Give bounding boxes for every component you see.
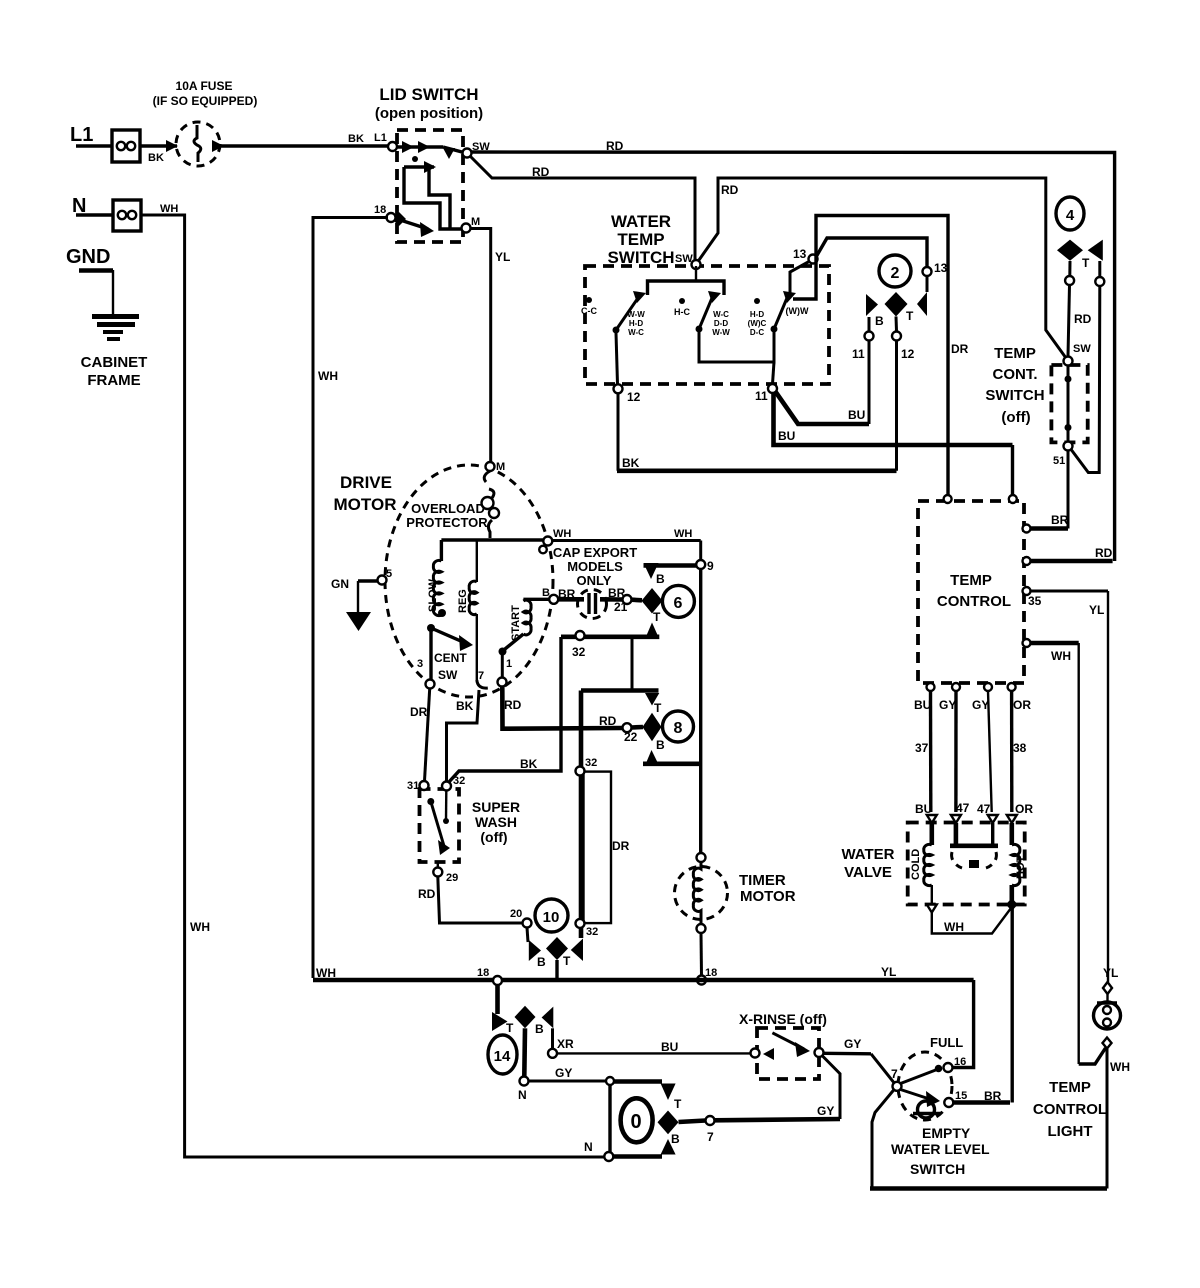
svg-text:W-C: W-C [713, 310, 729, 319]
node L1 at lid switch [388, 142, 397, 151]
svg-text:B: B [875, 314, 884, 328]
X-RINSE right node [815, 1048, 824, 1057]
svg-text:M: M [496, 461, 505, 473]
svg-text:(off): (off) [1001, 409, 1030, 426]
wire BK fuse to lid switch [220, 132, 388, 146]
svg-text:2: 2 [891, 265, 900, 282]
wire YL temp control to lamp [1103, 591, 1118, 982]
svg-text:11: 11 [755, 389, 768, 403]
node 3 of motor [417, 658, 435, 689]
svg-text:T: T [654, 701, 662, 715]
wire BR valve common to water level switch [1011, 907, 1014, 1103]
connector 10 [527, 899, 583, 980]
wire WH motor to node 9 [552, 528, 700, 560]
svg-text:BU: BU [848, 408, 865, 422]
svg-text:N: N [584, 1140, 593, 1154]
svg-text:(off): (off) [480, 829, 507, 845]
wire RD top from lid switch SW to right edge [471, 139, 1115, 561]
svg-text:RD: RD [504, 698, 522, 712]
connector plug P1 on L1 [112, 130, 140, 162]
switch arm 2 (W-C/D-D/W-W) [696, 291, 731, 337]
pin 35 YL of temp control [1023, 587, 1109, 617]
temp cont switch arm [1065, 365, 1072, 442]
valve bottom pin left [927, 905, 937, 913]
wire GY temp control to valve 47 [956, 691, 970, 815]
svg-text:XR: XR [557, 1037, 574, 1051]
wire GY X-RINSE to water level [824, 1037, 896, 1084]
node 18 timer on bus [697, 967, 717, 985]
svg-text:N: N [518, 1088, 527, 1102]
centrifugal switch [427, 624, 473, 682]
svg-text:18: 18 [477, 967, 489, 979]
svg-text:(open position): (open position) [375, 105, 483, 122]
valve pin BU [927, 815, 937, 823]
svg-text:T: T [563, 954, 571, 968]
svg-text:10A FUSE: 10A FUSE [176, 79, 233, 93]
svg-text:MOTOR: MOTOR [334, 495, 397, 514]
wire L1 lead [76, 144, 112, 147]
hot solenoid coil [1012, 823, 1027, 904]
svg-text:WATER: WATER [611, 212, 671, 231]
svg-text:BR: BR [984, 1089, 1002, 1103]
connector 0 [610, 1082, 682, 1157]
svg-text:BK: BK [622, 456, 640, 470]
wire RD connector 4 to temp cont switch [1065, 261, 1092, 356]
svg-text:GY: GY [817, 1104, 834, 1118]
wire BK motor contact to super wash [447, 690, 480, 781]
connector 6 [642, 563, 697, 639]
svg-text:WH: WH [674, 528, 692, 540]
node 13 of connector 2 [923, 261, 948, 292]
svg-text:WH: WH [318, 369, 338, 383]
svg-text:35: 35 [1028, 594, 1042, 608]
wire BR cap to connector 6 [558, 586, 628, 614]
valve pin 47b [988, 815, 998, 823]
wire BR node 51 to temp control [1067, 451, 1070, 529]
contact H-C [674, 298, 690, 317]
wire DR from (W)W to temp control [793, 216, 969, 496]
svg-text:47: 47 [956, 801, 970, 815]
node N of connector 14 [518, 1077, 529, 1103]
svg-text:C-C: C-C [581, 306, 597, 316]
wire OR temp control to valve [1012, 691, 1034, 816]
wire water level loop to lamp [870, 1048, 1107, 1189]
svg-text:GY: GY [844, 1037, 861, 1051]
svg-text:LIGHT: LIGHT [1048, 1123, 1093, 1140]
svg-text:OVERLOAD: OVERLOAD [411, 501, 485, 516]
water valve [841, 823, 1024, 905]
node 12 of water temp switch [614, 384, 641, 404]
wire node 13 riser to connector 2 [816, 238, 927, 266]
svg-text:B: B [537, 955, 546, 969]
wire WH valve bottom loop [932, 907, 1012, 934]
main bottom bus WH/YL [313, 965, 974, 1068]
svg-text:7: 7 [707, 1130, 714, 1144]
X-RINSE left node [751, 1048, 775, 1060]
svg-text:WH: WH [160, 203, 178, 215]
svg-text:9: 9 [707, 559, 714, 573]
wire BK from plug to fuse [140, 146, 177, 164]
svg-text:HOT: HOT [1015, 856, 1027, 880]
node 31 of super wash [407, 780, 429, 792]
svg-text:START: START [510, 605, 522, 641]
node 29 of super wash [433, 862, 458, 884]
connector 4 [1056, 197, 1103, 270]
switch arm 1 (W-W/H-D/W-C) [613, 291, 647, 337]
wire B of connector 8 to timer line [643, 761, 701, 766]
svg-text:TIMER: TIMER [739, 872, 786, 889]
node M of lid switch [462, 216, 481, 233]
svg-text:6: 6 [674, 595, 683, 612]
overload protector [406, 471, 499, 538]
svg-text:YL: YL [1089, 603, 1104, 617]
svg-text:WH: WH [1051, 649, 1071, 663]
svg-text:DR: DR [612, 839, 630, 853]
wire link to node 11 [773, 362, 775, 384]
svg-text:D-D: D-D [714, 319, 728, 328]
wire BU XR to X-RINSE [557, 1040, 751, 1054]
svg-text:BU: BU [914, 698, 931, 712]
slow winding [427, 540, 446, 617]
svg-text:L1: L1 [374, 132, 387, 144]
wire DR superwash to cent sw [410, 689, 430, 782]
svg-text:WATER LEVEL: WATER LEVEL [891, 1141, 990, 1157]
svg-text:H-D: H-D [750, 310, 764, 319]
svg-text:BR: BR [558, 587, 576, 601]
connector 14 [488, 985, 553, 1077]
svg-text:W-W: W-W [712, 328, 730, 337]
node SW of water temp switch [675, 253, 701, 269]
connector plug P2 on N [113, 200, 141, 231]
temp control bottom pins [914, 683, 1031, 712]
svg-text:REG: REG [457, 589, 469, 613]
svg-text:WH: WH [190, 920, 210, 934]
svg-text:YL: YL [881, 965, 896, 979]
svg-text:(W)W: (W)W [786, 306, 809, 316]
water level pivot node 7 [891, 1067, 902, 1091]
node 9 [696, 559, 714, 573]
svg-text:(IF SO EQUIPPED): (IF SO EQUIPPED) [153, 94, 258, 108]
wire GY N to connector 0 [529, 1066, 615, 1085]
svg-text:SUPER: SUPER [472, 799, 520, 815]
svg-text:WASH: WASH [475, 814, 517, 830]
svg-text:LID SWITCH: LID SWITCH [379, 85, 478, 104]
svg-text:VALVE: VALVE [844, 864, 892, 881]
svg-text:W-C: W-C [628, 328, 644, 337]
wire RD motor node1 to connector 8 [502, 687, 622, 729]
svg-text:RD: RD [1074, 312, 1092, 326]
svg-text:BK: BK [148, 152, 164, 164]
wire selector common bar [648, 266, 725, 295]
wire BK line A with node 32 [561, 631, 659, 691]
svg-text:14: 14 [494, 1048, 511, 1065]
node 11 of water temp switch [755, 384, 777, 403]
node N bottom left of connector 0 [584, 1140, 613, 1161]
pin WH of temp control [1023, 639, 1079, 663]
svg-text:12: 12 [901, 347, 915, 361]
svg-text:RD: RD [418, 887, 436, 901]
svg-text:T: T [506, 1021, 514, 1035]
motor internal bus [441, 538, 548, 541]
svg-text:H-D: H-D [629, 319, 643, 328]
node 5 GN ground of motor [331, 568, 392, 631]
svg-text:FRAME: FRAME [87, 372, 140, 389]
svg-text:CONTROL: CONTROL [937, 593, 1011, 610]
svg-text:SLOW: SLOW [427, 578, 439, 612]
svg-text:X-RINSE (off): X-RINSE (off) [739, 1011, 827, 1027]
svg-text:BR: BR [1051, 513, 1069, 527]
empty contact symbol [913, 1101, 941, 1118]
svg-text:RD: RD [606, 139, 624, 153]
node 7 [706, 1116, 715, 1144]
node WH at motor [539, 528, 571, 553]
svg-text:(W)C: (W)C [748, 319, 767, 328]
svg-text:B: B [656, 572, 665, 586]
svg-text:PROTECTOR: PROTECTOR [406, 515, 488, 530]
water level switch [891, 1035, 990, 1177]
svg-text:B: B [535, 1022, 544, 1036]
svg-text:3: 3 [417, 658, 423, 670]
node SW of temp cont switch [1064, 343, 1092, 366]
pin BR of temp control [1023, 513, 1069, 533]
svg-text:COLD: COLD [910, 849, 922, 880]
svg-text:T: T [674, 1097, 682, 1111]
X-RINSE arm [772, 1033, 810, 1057]
svg-text:7: 7 [891, 1067, 898, 1081]
wire BK super wash 32 riser [448, 637, 561, 783]
svg-text:SWITCH: SWITCH [985, 387, 1044, 404]
svg-text:12: 12 [627, 390, 641, 404]
wire GY temp control to valve 47b [977, 691, 992, 816]
svg-text:20: 20 [510, 908, 522, 920]
svg-text:SWITCH: SWITCH [910, 1161, 965, 1177]
svg-text:YL: YL [1103, 966, 1118, 980]
lid switch S1 (open position) [375, 85, 483, 242]
svg-text:TEMP: TEMP [1049, 1079, 1091, 1096]
capacitor (cap export models only) [553, 545, 637, 619]
svg-text:B: B [671, 1132, 680, 1146]
node 11 of connector 2 [852, 317, 874, 424]
wire arm3 to node 13 [790, 261, 810, 296]
node 16 FULL [944, 1056, 967, 1072]
node 18 of lid switch [374, 204, 396, 222]
super wash switch [420, 789, 521, 862]
wire GY node 7 to X-RINSE [715, 1056, 841, 1121]
node 15 EMPTY [944, 1090, 967, 1107]
svg-text:1: 1 [506, 658, 512, 670]
svg-text:CONTROL: CONTROL [1033, 1101, 1107, 1118]
svg-text:RD: RD [1095, 546, 1113, 560]
svg-text:RD: RD [721, 183, 739, 197]
svg-text:WH: WH [316, 966, 336, 980]
svg-text:10: 10 [543, 909, 560, 926]
svg-text:DRIVE: DRIVE [340, 473, 392, 492]
wire 7 from connector 0 [679, 1121, 706, 1123]
svg-text:GY: GY [555, 1066, 572, 1080]
water level arm to EMPTY [901, 1090, 941, 1108]
svg-text:WH: WH [553, 528, 571, 540]
svg-text:18: 18 [374, 204, 386, 216]
svg-text:MODELS: MODELS [567, 559, 623, 574]
svg-text:BU: BU [778, 429, 795, 443]
reg winding [457, 540, 477, 680]
node B of motor start [542, 587, 558, 604]
svg-text:32: 32 [586, 926, 598, 938]
svg-text:32: 32 [585, 757, 597, 769]
svg-text:M: M [471, 216, 480, 228]
svg-text:MOTOR: MOTOR [740, 888, 796, 905]
svg-text:18: 18 [705, 967, 717, 979]
wire BU node11 to connector2 [775, 391, 869, 424]
wire YL lid switch M to motor M [471, 229, 511, 463]
wire link arm2-arm3 [699, 332, 774, 362]
svg-text:GN: GN [331, 577, 349, 591]
svg-text:OR: OR [1013, 698, 1031, 712]
svg-text:DR: DR [951, 342, 969, 356]
temp cont switch [985, 345, 1087, 442]
node 20 [510, 908, 532, 928]
svg-text:RD: RD [532, 165, 550, 179]
svg-text:11: 11 [852, 347, 865, 361]
svg-text:EMPTY: EMPTY [922, 1125, 971, 1141]
node 32 upper on riser [576, 757, 598, 776]
svg-text:WH: WH [1110, 1060, 1130, 1074]
wire BU node11 to temp control [774, 393, 1013, 495]
water level arm to FULL [901, 1065, 943, 1084]
svg-text:CAP EXPORT: CAP EXPORT [553, 545, 637, 560]
switch arm 3 ((W)W) [771, 291, 809, 333]
svg-text:B: B [656, 738, 665, 752]
node 32 lower on riser [576, 919, 599, 938]
wire RD from SW to water temp switch and temp cont switch [470, 156, 1066, 358]
svg-text:CENT: CENT [434, 651, 467, 665]
svg-text:51: 51 [1053, 455, 1065, 467]
start winding [499, 599, 550, 678]
svg-text:W-W: W-W [627, 310, 645, 319]
svg-text:GY: GY [972, 698, 989, 712]
node 18 left on bus [477, 967, 502, 985]
svg-text:22: 22 [624, 730, 638, 744]
svg-text:T: T [653, 610, 661, 624]
node M of motor [486, 461, 506, 473]
svg-text:31: 31 [407, 780, 419, 792]
wire WH temp control to lamp [1079, 643, 1130, 1074]
svg-text:29: 29 [446, 872, 458, 884]
node 13 of water temp switch [793, 247, 818, 264]
wire BU temp control to valve [915, 691, 932, 816]
svg-text:CABINET: CABINET [81, 354, 148, 371]
svg-text:BU: BU [661, 1040, 678, 1054]
svg-text:ONLY: ONLY [577, 573, 612, 588]
temp control light [1033, 982, 1121, 1140]
valve bottom junction right [1006, 898, 1018, 911]
svg-text:4: 4 [1066, 207, 1075, 224]
svg-text:B: B [542, 587, 550, 599]
svg-text:37: 37 [915, 741, 929, 755]
wire arm1 to node 12 [616, 333, 618, 384]
svg-text:0: 0 [630, 1111, 641, 1133]
svg-text:SW: SW [438, 668, 458, 682]
svg-text:BK: BK [520, 757, 538, 771]
svg-text:8: 8 [674, 720, 683, 737]
wire BR empty to valve common [953, 1089, 1010, 1103]
node 51 [1053, 442, 1073, 468]
node N (neutral input) [72, 195, 86, 217]
svg-text:H-C: H-C [674, 307, 690, 317]
svg-text:BK: BK [456, 699, 474, 713]
svg-text:YL: YL [495, 250, 510, 264]
contact 7 of motor [477, 670, 488, 688]
ground GND [66, 246, 113, 315]
svg-text:T: T [906, 309, 914, 323]
connector 8 [643, 693, 694, 766]
svg-text:32: 32 [572, 645, 586, 659]
pin RD of temp control [1023, 546, 1113, 565]
svg-text:WATER: WATER [841, 846, 894, 863]
node 32 of super wash [442, 775, 465, 791]
X-RINSE switch [739, 1011, 827, 1079]
svg-text:BK: BK [348, 133, 364, 145]
wire node 9 down to timer motor [699, 569, 702, 853]
svg-text:GND: GND [66, 246, 110, 268]
wire BK node12 run [617, 393, 897, 471]
svg-text:38: 38 [1013, 741, 1027, 755]
super wash arm [427, 791, 450, 856]
contact H-D/(W)C/D-C [748, 298, 767, 337]
drive motor [334, 465, 553, 697]
svg-text:13: 13 [793, 247, 807, 261]
wire WH lid switch 18 riser [313, 218, 388, 979]
svg-text:SW: SW [1073, 343, 1091, 355]
svg-text:CONT.: CONT. [993, 366, 1038, 383]
node XR [548, 1037, 574, 1058]
svg-text:TEMP: TEMP [994, 345, 1036, 362]
node 1 of motor [498, 658, 513, 687]
contact C-C [581, 297, 597, 316]
svg-text:WH: WH [944, 920, 964, 934]
temp control [918, 495, 1024, 683]
svg-text:FULL: FULL [930, 1035, 963, 1050]
timer motor [675, 853, 796, 976]
ground symbol cabinet frame [81, 317, 148, 390]
fuse F1 10A (if so equipped) [153, 79, 258, 166]
cold solenoid coil [910, 823, 932, 903]
svg-text:T: T [1082, 256, 1090, 270]
node SW of lid switch [463, 141, 491, 158]
svg-text:16: 16 [954, 1056, 966, 1068]
svg-text:5: 5 [386, 568, 392, 580]
svg-text:L1: L1 [70, 124, 93, 146]
node 22 [599, 714, 643, 744]
node L1 (line input) [70, 124, 93, 146]
valve pin OR [1007, 815, 1017, 823]
wire WH neutral run [141, 203, 606, 1157]
node 12 of connector 2 [892, 317, 915, 471]
svg-text:13: 13 [934, 261, 948, 275]
svg-text:D-C: D-C [750, 328, 764, 337]
svg-text:TEMP: TEMP [617, 230, 664, 249]
svg-text:SW: SW [675, 253, 693, 265]
svg-text:7: 7 [478, 670, 484, 682]
node 21 [623, 595, 643, 604]
wire N lead [76, 213, 113, 216]
valve pin 47a [951, 815, 961, 823]
wire RD super wash to node 20 [418, 877, 522, 924]
svg-text:TEMP: TEMP [950, 572, 992, 589]
wire T of connector 4 to node 51 [1070, 261, 1104, 473]
wire DR timer riser [581, 691, 630, 939]
connector 2 [866, 255, 927, 328]
